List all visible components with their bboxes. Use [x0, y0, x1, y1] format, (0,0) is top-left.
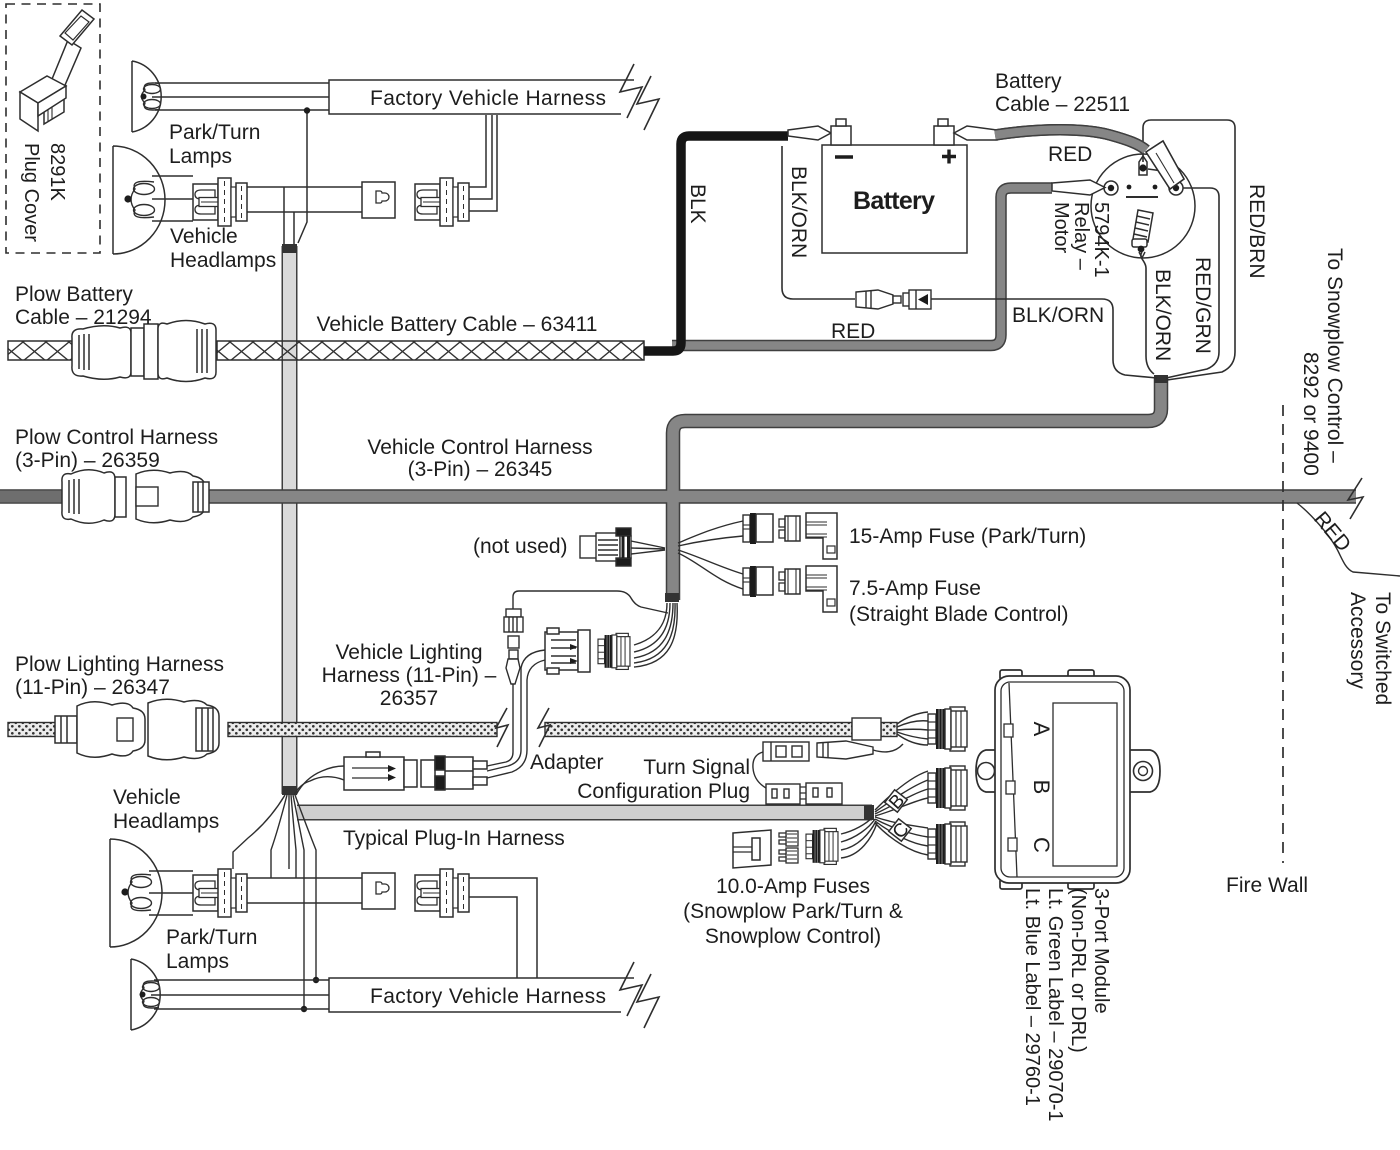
wires: 11-pin to adapter risers: [487, 650, 545, 778]
svg-text:BLK: BLK: [686, 184, 709, 224]
wire: vehicle lighting sleeve (vertical light gray): [282, 244, 297, 795]
plow control harness connector pair: [62, 470, 209, 524]
wires: 10-amp fuse to C: [841, 817, 877, 858]
svg-text:Vehicle: Vehicle: [113, 786, 181, 809]
wires: plug-in harness fan to port C: [875, 817, 928, 855]
svg-text:Factory Vehicle Harness: Factory Vehicle Harness: [370, 87, 606, 110]
svg-text:8292 or 9400: 8292 or 9400: [1299, 352, 1322, 476]
svg-text:To Switched: To Switched: [1371, 592, 1394, 705]
svg-text:Plow Battery: Plow Battery: [15, 283, 133, 306]
wires: sleeve fan bottom: [233, 795, 316, 1008]
dashed box: 8291K plug cover: [6, 4, 100, 253]
svg-text:(Straight Blade Control): (Straight Blade Control): [849, 603, 1068, 626]
svg-text:(not used): (not used): [473, 535, 568, 558]
svg-text:Cable – 22511: Cable – 22511: [995, 93, 1130, 116]
cable: vehicle lighting harness stipple run 2: [545, 723, 852, 737]
relay terminal lug right angled: [1146, 141, 1184, 189]
thick gray wiring: gray overlay: [0, 130, 1356, 600]
headlamp bulb socket top: [193, 178, 247, 226]
headlamp bulb socket bottom: [193, 869, 247, 917]
wire: BLK thick black: [644, 136, 788, 351]
svg-text:Configuration Plug: Configuration Plug: [577, 780, 750, 803]
motor relay: [1091, 154, 1195, 258]
svg-text:Factory Vehicle Harness: Factory Vehicle Harness: [370, 985, 606, 1008]
battery: [822, 145, 967, 253]
port connector B: [928, 766, 967, 810]
cable: vehicle lighting harness stipple run 1: [228, 723, 497, 737]
svg-text:RED/GRN: RED/GRN: [1191, 257, 1214, 354]
inline connector pair on BLK/ORN: [856, 290, 931, 309]
port connector C: [928, 822, 967, 866]
svg-text:Lt. Blue Label – 29760-1: Lt. Blue Label – 29760-1: [1021, 888, 1043, 1106]
turn signal configuration plug pair: [766, 783, 842, 804]
break mark: lighting harness left: [496, 708, 508, 747]
svg-text:Vehicle: Vehicle: [170, 225, 238, 248]
svg-text:Park/Turn: Park/Turn: [166, 926, 257, 949]
10-amp fuse block: [733, 830, 771, 868]
svg-text:(11-Pin) – 26347: (11-Pin) – 26347: [15, 676, 170, 699]
svg-text:Lamps: Lamps: [166, 950, 229, 973]
svg-text:Snowplow Control): Snowplow Control): [705, 925, 881, 948]
battery clamp negative: [788, 119, 851, 145]
bottom vehicle headlamp: [110, 839, 162, 947]
battery cable over wires: [995, 130, 1146, 150]
vehicle headlamp top: [113, 146, 165, 254]
wires: park/turn lamp top to harness: [152, 83, 329, 243]
svg-text:BLK/ORN: BLK/ORN: [1151, 269, 1174, 361]
bottom factory vehicle harness banner: [329, 962, 659, 1028]
svg-text:Fire Wall: Fire Wall: [1226, 874, 1308, 897]
svg-text:Headlamps: Headlamps: [113, 810, 219, 833]
(not used) connector: [580, 528, 631, 566]
wire: RED/BRN: [1143, 120, 1235, 380]
wire: typical plug-in harness light bar overlay: [297, 806, 872, 819]
wires: bar tip fan to 11-pin connector: [634, 603, 677, 667]
headlamp mate socket bottom: [415, 869, 469, 917]
10-amp fuse connector: [806, 828, 838, 864]
wires: socket to connectors bottom: [247, 878, 362, 903]
wire: relay coil BLK/ORN: [1141, 252, 1154, 374]
inline fuse holder component: [504, 609, 523, 684]
wires: to 7.5-amp fuse: [678, 550, 743, 589]
svg-text:Park/Turn: Park/Turn: [169, 121, 260, 144]
wire: BLK/ORN battery thin: [782, 146, 855, 299]
11-pin adapter connector pair: [545, 628, 590, 674]
svg-text:10.0-Amp Fuses: 10.0-Amp Fuses: [716, 875, 870, 898]
cable: vehicle battery cable hatched run: [217, 341, 644, 360]
cable: plow battery cable hatched stub: [8, 341, 72, 360]
svg-text:(Non-DRL or DRL): (Non-DRL or DRL): [1067, 888, 1089, 1053]
svg-text:Lt. Green Label – 29070-1: Lt. Green Label – 29070-1: [1044, 888, 1066, 1122]
relay terminal lug left: [1052, 180, 1105, 195]
wires: mate socket to factory harness top: [469, 115, 497, 211]
wires: mate socket to bottom harness: [469, 878, 537, 978]
wire: inline holder to adapter: [487, 684, 513, 766]
svg-text:C: C: [1029, 837, 1054, 853]
svg-text:7.5-Amp Fuse: 7.5-Amp Fuse: [849, 577, 981, 600]
svg-text:Vehicle Battery Cable – 63411: Vehicle Battery Cable – 63411: [317, 313, 598, 336]
15-amp fuse assembly: [743, 513, 837, 559]
bottom park/turn lamp: [131, 959, 160, 1030]
adapter connector pair: [344, 752, 417, 790]
plow lighting harness connector pair: [55, 699, 219, 760]
svg-text:Motor: Motor: [1050, 202, 1072, 253]
svg-text:Adapter: Adapter: [530, 751, 604, 774]
svg-text:Cable – 21294: Cable – 21294: [15, 306, 152, 329]
wires: to 15-amp fuse: [678, 521, 743, 546]
3-port module: [976, 670, 1160, 889]
label B diamond: [885, 790, 907, 812]
wires: plug-in harness fan to port B: [875, 771, 928, 816]
svg-text:BLK/ORN: BLK/ORN: [787, 166, 810, 258]
svg-text:Typical Plug-In Harness: Typical Plug-In Harness: [343, 827, 565, 850]
7.5-amp fuse assembly: [743, 566, 837, 612]
node: bottom lamp junctions: [313, 977, 319, 983]
plow battery cable connector pair: [72, 321, 216, 382]
svg-text:RED: RED: [1048, 143, 1092, 166]
svg-text:Lamps: Lamps: [169, 145, 232, 168]
svg-text:RED/BRN: RED/BRN: [1245, 184, 1268, 279]
svg-text:A: A: [1029, 722, 1054, 737]
wire: RED to switched accessory: [1297, 503, 1400, 576]
relay terminal lug right redraw: [1146, 141, 1184, 189]
wires: not used to bar: [631, 541, 665, 554]
svg-text:Plow Lighting Harness: Plow Lighting Harness: [15, 653, 224, 676]
svg-text:Vehicle Control Harness: Vehicle Control Harness: [367, 436, 592, 459]
node: park/turn top junction: [304, 107, 310, 113]
svg-text:B: B: [1029, 780, 1054, 795]
svg-text:RED: RED: [831, 320, 875, 343]
cable: vehicle lighting harness stipple run 3: [881, 723, 897, 737]
turn signal configuration plug bullet pair: [763, 741, 873, 761]
svg-text:Headlamps: Headlamps: [170, 249, 276, 272]
plug cover 8291K drawing: [20, 10, 94, 131]
svg-text:26357: 26357: [380, 687, 438, 710]
top factory vehicle harness banner: [329, 64, 659, 130]
svg-text:(3-Pin) – 26345: (3-Pin) – 26345: [408, 458, 553, 481]
svg-text:Plug Cover: Plug Cover: [20, 143, 42, 242]
svg-text:Relay –: Relay –: [1070, 202, 1092, 271]
svg-text:(Snowplow Park/Turn &: (Snowplow Park/Turn &: [683, 900, 903, 923]
headlamp white connector bottom: [362, 873, 395, 909]
svg-text:Harness (11-Pin) –: Harness (11-Pin) –: [322, 664, 497, 687]
svg-text:Battery: Battery: [995, 70, 1062, 93]
svg-text:Turn Signal: Turn Signal: [643, 756, 750, 779]
sleeve on lighting harness near module: [852, 718, 881, 740]
park/turn lamp top: [132, 61, 161, 132]
headlamp mate socket top: [415, 178, 469, 226]
break mark: lighting harness right: [538, 708, 550, 747]
svg-text:8291K: 8291K: [46, 143, 68, 201]
svg-text:Accessory: Accessory: [1346, 592, 1369, 689]
svg-text:3-Port Module: 3-Port Module: [1090, 888, 1112, 1014]
battery clamp positive: [934, 119, 997, 145]
break mark: control harness end: [1348, 478, 1363, 519]
wires: socket to connectors top: [247, 187, 362, 244]
wire: to inline holder from bar: [513, 591, 668, 613]
svg-text:5794K-1: 5794K-1: [1090, 202, 1112, 278]
wires: config plug: [873, 744, 903, 752]
svg-text:15-Amp Fuse (Park/Turn): 15-Amp Fuse (Park/Turn): [849, 525, 1086, 548]
wires: lighting harness fan to port A: [897, 712, 928, 745]
headlamp white connector top: [362, 182, 395, 218]
plow control harness connector gap mask: [120, 482, 142, 512]
wire: RED/GRN: [1166, 188, 1219, 378]
firewall dashed line: [1282, 405, 1284, 863]
svg-text:Vehicle Lighting: Vehicle Lighting: [335, 641, 482, 664]
wires: headlamp top to socket: [152, 176, 193, 221]
10-amp fuses pair: [779, 831, 798, 863]
cable: plow lighting harness stipple stub: [8, 723, 57, 737]
wires: headlamp fan to adapter: [294, 766, 344, 795]
label C diamond: [889, 819, 911, 841]
svg-text:Battery: Battery: [853, 187, 935, 215]
svg-text:Plow Control Harness: Plow Control Harness: [15, 426, 218, 449]
svg-text:To Snowplow Control –: To Snowplow Control –: [1323, 248, 1346, 463]
wire: plow control stub darker: [0, 491, 62, 503]
port connector A: [928, 707, 967, 751]
svg-text:(3-Pin) – 26359: (3-Pin) – 26359: [15, 449, 160, 472]
svg-text:BLK/ORN: BLK/ORN: [1012, 304, 1104, 327]
thick gray wiring: underlay outlines: [0, 130, 1356, 813]
